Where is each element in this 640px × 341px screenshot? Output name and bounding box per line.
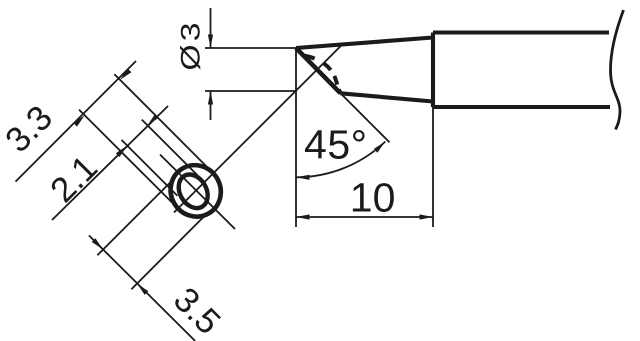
label 10 xyxy=(350,178,396,219)
label 3.3 xyxy=(0,99,59,158)
3.3 dimension line xyxy=(16,61,137,182)
bevel face edge xyxy=(296,48,341,93)
3.3 extension line SW xyxy=(79,110,172,203)
label 2.1 xyxy=(44,149,103,208)
shank left edge xyxy=(431,33,435,108)
label 3.5 xyxy=(167,281,226,340)
hidden bevel ellipse edge (dashed) xyxy=(302,55,340,92)
projection centerline 45deg xyxy=(174,46,341,213)
3.5 arrow SE xyxy=(137,284,148,295)
ellipse cross centerline xyxy=(160,155,235,230)
o3 arrow down xyxy=(208,35,213,49)
bevel angle extension line xyxy=(341,93,390,142)
inner face ellipse xyxy=(173,169,214,213)
2.1 extension line SW xyxy=(122,140,178,196)
o3 dimension line upper segment xyxy=(210,8,212,48)
extension line vertical from apex xyxy=(295,48,297,227)
shank top edge xyxy=(433,30,609,34)
o3 dimension line lower segment xyxy=(210,91,212,120)
3.3 arrow SW xyxy=(73,115,84,126)
2.1 arrow NE xyxy=(148,114,159,125)
10 arrow right xyxy=(420,214,434,219)
shank bottom edge xyxy=(433,105,610,109)
10 dimension line xyxy=(296,216,433,218)
3.5 dimension line xyxy=(89,235,195,341)
outer face ellipse xyxy=(161,156,230,226)
break line (wavy) xyxy=(611,10,624,130)
45 degree angle arc xyxy=(296,142,385,178)
2.1 extension line NE xyxy=(142,120,198,176)
3.5 extension line NW xyxy=(97,180,173,256)
angle arc arrow upper xyxy=(374,142,386,153)
extension line top (o3 upper) xyxy=(205,47,296,49)
3.5 extension line SE xyxy=(131,214,207,290)
10 arrow left xyxy=(296,214,310,219)
3.3 extension line NE xyxy=(114,74,207,167)
2.1 arrow SW xyxy=(116,146,127,157)
label o3 xyxy=(177,19,204,70)
2.1 dimension line xyxy=(52,106,168,220)
angle arc arrow left xyxy=(296,175,310,180)
extension line right for 10 xyxy=(432,107,434,227)
cone bottom outline xyxy=(341,93,434,101)
o3 arrow up xyxy=(208,91,213,105)
3.3 arrow NE xyxy=(120,69,131,80)
3.5 arrow NW xyxy=(92,238,103,249)
extension line bottom (o3 lower) xyxy=(205,90,296,92)
label 45deg xyxy=(304,124,368,165)
cone top outline xyxy=(296,38,433,49)
